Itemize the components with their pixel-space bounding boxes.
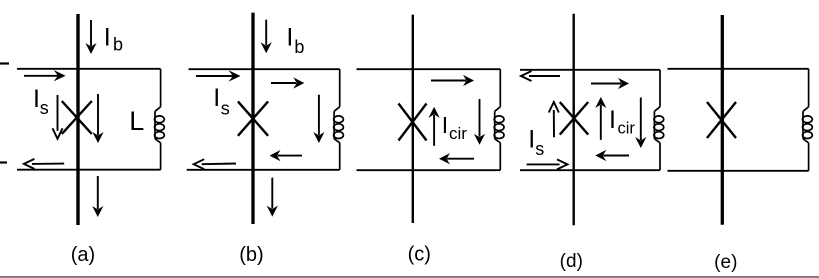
arrow down right of Icir (panel d) [640,98,642,141]
inductor (panel d) [659,70,661,107]
panel (e) top wire [668,68,809,70]
svg-text:I: I [528,126,535,154]
svg-text:I: I [609,106,616,134]
josephson junction (panel b) [238,101,268,135]
josephson junction (panel e) [707,102,736,138]
panel (a) bottom wire [17,169,161,171]
arrow circulating bottom-left (panel c) [447,158,474,160]
panel (d) top wire [520,69,660,71]
inductor L (panel a) [160,69,162,107]
arrow down-left of junction (panel a) [57,95,59,131]
arrow circulating top (panel d) [591,83,621,85]
panel (b) top wire [189,68,340,70]
arrow Is right (panel b) [196,75,234,77]
arrow Icir up (panel c) [433,115,435,146]
arrow circulating bottom-left (panel d) [603,155,629,157]
arrow out left top (panel d) [529,75,560,77]
josephson junction (panel d) [560,102,588,135]
arrow down-right of junction (panel a) [97,94,99,135]
scan artifact bottom edge line [0,276,819,278]
svg-text:I: I [286,24,293,52]
arrow circulating right-down (panel c) [479,99,481,137]
svg-text:(c): (c) [408,244,431,266]
svg-text:cir: cir [618,119,636,137]
svg-text:s: s [40,98,49,118]
scan artifact left edge dash top [0,62,9,64]
panel (b) bias line (vertical) [251,13,254,224]
svg-text:I: I [104,24,111,52]
svg-text:(a): (a) [71,244,95,266]
josephson junction (panel c) [399,104,427,141]
svg-text:(e): (e) [714,252,737,273]
panel (a) top wire [17,68,161,70]
svg-text:L: L [129,106,144,136]
arrow Is up (panel d) [553,110,555,137]
arrow out left (panel a) [32,163,64,165]
scan artifact left edge dash bottom [0,161,7,163]
arrow Ib down (panel b) [265,20,267,46]
svg-text:s: s [535,139,544,159]
arrow down bottom (panel a) [97,176,99,209]
panel (c) bottom wire [357,169,501,171]
svg-text:s: s [221,99,230,119]
svg-text:(d): (d) [560,251,583,272]
svg-text:b: b [113,35,123,55]
panel (a) bias line (vertical) [76,14,79,225]
inductor (panel b) [339,69,341,107]
panel (b) bottom wire [187,169,340,171]
panel (e) bias line (vertical) [721,15,724,225]
arrow circulating bottom-left (panel b) [278,155,303,157]
svg-text:I: I [213,84,220,112]
panel (d) bias line (vertical) [573,14,575,226]
svg-text:(b): (b) [239,244,263,266]
panel (e) bottom wire [668,170,809,172]
arrow circulating right-down (panel b) [318,95,320,135]
arrow Icir up (panel d) [600,105,602,140]
arrow circulating top (panel b) [271,82,296,84]
svg-text:cir: cir [449,124,467,143]
arrow in right bottom (panel d) [527,163,560,165]
arrow out left (panel b) [202,163,236,166]
panel (c) bias line (vertical) [412,15,414,223]
panel (d) bottom wire [520,169,660,171]
svg-text:I: I [442,112,448,138]
inductor (panel c) [499,69,501,107]
arrow circulating top (panel c) [431,80,466,82]
svg-text:b: b [294,37,304,57]
arrow Is right (panel a) [24,75,59,77]
panel (c) top wire [357,68,501,70]
arrow Ib down (panel a) [90,20,92,46]
arrow down bottom (panel b) [271,178,273,209]
josephson junction (panel a) [62,101,92,134]
inductor (panel e) [808,69,810,107]
